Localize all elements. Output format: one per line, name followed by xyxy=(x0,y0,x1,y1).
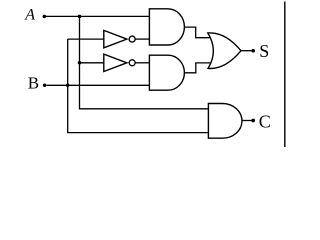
wire NOT1 input xyxy=(68,38,104,40)
svg-text:A: A xyxy=(24,7,35,24)
wire AND2 output jog to OR lower input xyxy=(184,63,210,73)
and gate U4 (middle) xyxy=(149,55,184,90)
node junction dot on B wire xyxy=(66,84,70,88)
and gate U3 (top) xyxy=(149,9,184,45)
not gate U2 (inverter, input A) xyxy=(104,54,127,71)
wire NOT2 input xyxy=(80,62,104,64)
wire AND3 output to C xyxy=(242,120,252,122)
not gate U1 (inverter, input B) xyxy=(104,30,127,47)
node junction dot NOT2 input xyxy=(78,61,82,65)
wire NOT2 output xyxy=(135,62,149,64)
node B terminal dot xyxy=(43,84,47,88)
node S output dot xyxy=(251,49,255,53)
wire B input xyxy=(47,84,150,86)
wire A input xyxy=(46,15,150,17)
svg-text:B: B xyxy=(28,74,39,93)
border line at right xyxy=(284,2,286,148)
node junction dot on A wire xyxy=(78,15,82,19)
wire B vertical (up to NOT1 input, down to AND3 lower input) xyxy=(68,39,209,133)
or gate U5 xyxy=(208,33,241,69)
svg-text:C: C xyxy=(259,111,271,131)
node C output dot xyxy=(251,119,255,123)
wire AND1 output jog to OR upper input xyxy=(184,27,210,38)
wire NOT1 output xyxy=(135,38,149,40)
node A terminal dot xyxy=(43,15,47,19)
wire OR output to S xyxy=(241,50,252,52)
svg-text:S: S xyxy=(259,41,269,61)
wire A vertical drop and run to AND3 upper input xyxy=(80,16,209,108)
and gate U6 (bottom, output C) xyxy=(208,104,242,139)
